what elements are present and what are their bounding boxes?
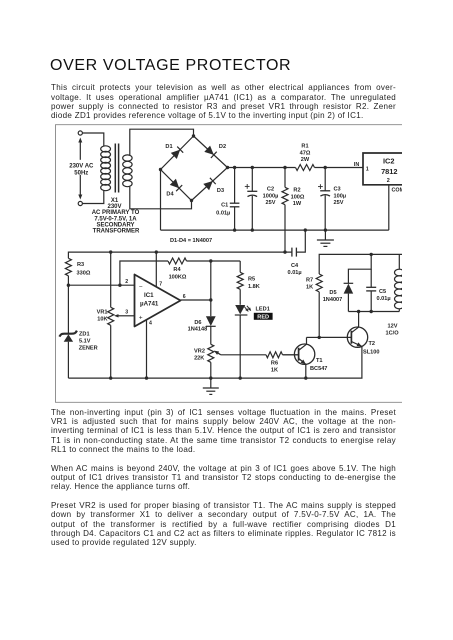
- svg-text:7: 7: [159, 282, 162, 288]
- svg-text:7812: 7812: [381, 167, 397, 176]
- svg-text:T2: T2: [369, 341, 376, 347]
- svg-text:X1: X1: [111, 198, 119, 204]
- zener diode ZD1: [59, 285, 97, 378]
- svg-text:2: 2: [387, 178, 390, 184]
- svg-text:1N4148: 1N4148: [188, 327, 208, 333]
- svg-text:C1: C1: [221, 203, 228, 209]
- wire secondary top to bridge: [130, 129, 194, 155]
- wire bridge left corner to ground rail: [160, 170, 162, 231]
- svg-text:VR1: VR1: [97, 310, 108, 316]
- resistor R7: [306, 274, 322, 337]
- svg-text:LED1: LED1: [256, 306, 270, 312]
- node pin 7 on sense rail: [155, 250, 158, 253]
- resistor R2: [282, 168, 305, 253]
- svg-text:100Ω: 100Ω: [291, 194, 305, 200]
- svg-text:ZENER: ZENER: [79, 345, 98, 351]
- svg-text:D1: D1: [165, 144, 172, 150]
- LED1: [235, 305, 270, 378]
- transformer X1 secondary winding: [123, 155, 132, 187]
- wire inverting input pin 2: [68, 284, 134, 286]
- bridge node left: [159, 168, 162, 171]
- svg-text:100µ: 100µ: [334, 193, 347, 199]
- bottom ground rail wire: [68, 346, 362, 378]
- regulator IC2 7812: [354, 153, 402, 185]
- svg-text:IC1: IC1: [144, 292, 154, 299]
- relay coil RL1: [395, 254, 405, 311]
- bridge rectifier diamond wires: [161, 136, 228, 201]
- node VR1 bottom: [109, 376, 112, 379]
- svg-text:0.01µ: 0.01µ: [216, 210, 230, 216]
- transistor T2 SL100: [319, 312, 379, 356]
- svg-text:+: +: [139, 314, 143, 321]
- node LED1 bottom on rail: [239, 376, 242, 379]
- svg-text:1K: 1K: [306, 285, 313, 291]
- wire terminal bottom to primary: [82, 191, 104, 204]
- resistor R6: [266, 352, 299, 374]
- node T2 collector junction: [357, 310, 360, 313]
- wire IC2 pin2 to ground rail: [388, 185, 390, 231]
- ground symbol near C3: [317, 230, 334, 246]
- node pin 6 junction: [209, 298, 212, 301]
- node pin 4 on bottom rail: [145, 376, 148, 379]
- svg-text:IC2: IC2: [383, 156, 395, 165]
- label RED tag: [254, 313, 273, 321]
- svg-text:D6: D6: [194, 320, 201, 326]
- svg-text:R1: R1: [301, 144, 308, 150]
- svg-text:D3: D3: [217, 188, 224, 194]
- resistor R1: [296, 144, 315, 171]
- svg-text:12V: 12V: [388, 323, 398, 329]
- wire secondary bottom to bridge: [130, 187, 192, 209]
- svg-text:T1: T1: [316, 358, 323, 364]
- svg-text:BC547: BC547: [310, 366, 327, 372]
- pin 6 label: [183, 294, 186, 300]
- diode D1: [165, 144, 183, 159]
- svg-text:RED: RED: [257, 315, 269, 321]
- svg-text:C2: C2: [267, 187, 274, 193]
- svg-text:TRANSFORMER: TRANSFORMER: [93, 229, 140, 235]
- svg-text:100KΩ: 100KΩ: [169, 275, 187, 281]
- svg-text:25V: 25V: [266, 200, 276, 206]
- node C3 top: [324, 166, 327, 169]
- node C4 right on ground rail: [304, 228, 307, 231]
- node C1 bottom: [233, 228, 236, 231]
- svg-text:2W: 2W: [301, 157, 310, 163]
- svg-text:4: 4: [149, 321, 152, 327]
- node relay box bottom C5: [370, 310, 373, 313]
- node VR2 bottom on rail: [209, 376, 212, 379]
- node output rail D6 drop: [209, 259, 212, 262]
- svg-text:C4: C4: [291, 263, 299, 269]
- svg-text:1: 1: [366, 166, 369, 172]
- node C1 top: [233, 166, 236, 169]
- node T1 T2 base junction: [318, 336, 321, 339]
- figure border frame: [56, 125, 403, 403]
- transformer X1 core: [115, 144, 118, 193]
- resistor R5: [237, 261, 260, 305]
- svg-text:AC PRIMARY TO: AC PRIMARY TO: [92, 210, 140, 216]
- bridge node bottom: [190, 199, 193, 202]
- wire pin 7 to sense rail: [155, 252, 157, 287]
- wire R4 branch from pin 2 node: [120, 261, 168, 285]
- label relay 12V 1C/O: [386, 323, 400, 336]
- mains input terminal top: [78, 131, 82, 135]
- mains voltage arrow: [78, 138, 82, 200]
- svg-text:1C/O: 1C/O: [386, 331, 400, 337]
- diode D4: [166, 179, 182, 198]
- pin 4 label: [149, 321, 152, 327]
- pin 7 label: [159, 282, 162, 288]
- bridge node right: [226, 166, 229, 169]
- VR2 wiper arrow: [214, 351, 266, 355]
- wire terminal top to primary: [82, 133, 104, 146]
- diode D2: [204, 144, 226, 158]
- node R2 top: [283, 166, 286, 169]
- svg-text:COM: COM: [392, 188, 405, 194]
- svg-text:VR2: VR2: [194, 349, 205, 355]
- svg-text:IN: IN: [354, 162, 359, 168]
- svg-text:22K: 22K: [194, 355, 204, 361]
- pin 3 label: [125, 310, 128, 316]
- svg-text:D1-D4 = 1N4007: D1-D4 = 1N4007: [170, 238, 212, 244]
- capacitor C1: [216, 168, 239, 231]
- node T1 emitter on bottom rail: [304, 376, 307, 379]
- preset VR1: [97, 252, 114, 378]
- node VR1 top: [109, 250, 112, 253]
- capacitor C3 electrolytic: [318, 168, 346, 231]
- svg-text:D4: D4: [166, 191, 174, 197]
- label 230V AC 50Hz: [65, 160, 97, 177]
- node R3 bottom: [67, 284, 70, 287]
- svg-text:2: 2: [125, 279, 128, 285]
- svg-text:1K: 1K: [271, 368, 278, 374]
- capacitor C2 electrolytic: [245, 168, 279, 231]
- wire pin 4 to ground rail bottom: [146, 320, 148, 378]
- svg-text:D5: D5: [329, 290, 336, 296]
- resistor R3: [65, 258, 90, 285]
- svg-text:1.8K: 1.8K: [248, 284, 260, 290]
- resistor R4: [168, 258, 240, 281]
- svg-text:330Ω: 330Ω: [77, 271, 91, 277]
- VR1 wiper arrow to pin 3: [114, 314, 135, 317]
- svg-text:25V: 25V: [334, 200, 344, 206]
- svg-text:R2: R2: [293, 188, 300, 194]
- preset VR2: [194, 344, 214, 378]
- node relay rail D5 drop: [370, 253, 373, 256]
- capacitor C4: [288, 230, 306, 276]
- svg-text:5.1V: 5.1V: [79, 339, 91, 345]
- wire output node down: [210, 261, 212, 316]
- svg-text:230V: 230V: [107, 204, 121, 210]
- svg-text:ZD1: ZD1: [79, 332, 90, 338]
- svg-text:D2: D2: [219, 144, 226, 150]
- svg-text:50Hz: 50Hz: [74, 170, 88, 176]
- svg-text:R5: R5: [248, 277, 255, 283]
- svg-text:R7: R7: [306, 278, 313, 284]
- bridge node top: [192, 134, 195, 137]
- svg-text:R6: R6: [271, 360, 278, 366]
- svg-text:0.01µ: 0.01µ: [377, 296, 391, 302]
- wire op-amp output pin 6: [181, 299, 211, 301]
- pin 2 label: [125, 279, 128, 285]
- capacitor C5: [366, 269, 390, 311]
- label X1 230V AC PRIMARY TO 7.5V-0-7.5V, 1A SECONDARY TRANSFORMER: [92, 198, 140, 235]
- wire sense rail R3 to C4: [68, 252, 292, 258]
- node C2 top: [251, 166, 254, 169]
- transistor T1 BC547: [283, 337, 328, 378]
- wire positive rail left segment: [228, 167, 296, 169]
- node R4 drop on pin 2 wire: [118, 284, 121, 287]
- diode D3: [203, 178, 224, 194]
- wire relay box bottom: [348, 311, 399, 313]
- svg-text:SL100: SL100: [363, 350, 379, 356]
- svg-text:10K: 10K: [97, 317, 107, 323]
- mains input terminal bottom: [78, 201, 82, 205]
- svg-text:47Ω: 47Ω: [300, 150, 311, 156]
- svg-text:7.5V-0-7.5V, 1A: 7.5V-0-7.5V, 1A: [94, 216, 137, 222]
- svg-text:R4: R4: [173, 267, 181, 273]
- node R2 bottom on sense rail: [283, 250, 286, 253]
- wire relay rail: [319, 254, 402, 274]
- wire relay box top: [348, 254, 371, 283]
- svg-text:0.01µ: 0.01µ: [288, 270, 302, 276]
- svg-text:R3: R3: [77, 262, 84, 268]
- ground symbol bottom: [203, 378, 219, 394]
- node ground symbol rail: [324, 228, 327, 231]
- svg-text:SECONDARY: SECONDARY: [96, 222, 134, 228]
- svg-text:3: 3: [125, 310, 128, 316]
- svg-text:1000µ: 1000µ: [263, 193, 279, 199]
- diode D5: [323, 283, 354, 311]
- label D1-D4 = 1N4007: [170, 238, 212, 244]
- svg-text:1N4007: 1N4007: [323, 297, 343, 303]
- ground rail wire: [161, 229, 389, 231]
- wire positive rail right segment: [315, 167, 364, 169]
- diode D6: [188, 316, 216, 344]
- transformer X1 primary winding: [101, 146, 111, 191]
- svg-text:µA741: µA741: [140, 300, 159, 307]
- svg-text:−: −: [139, 283, 143, 290]
- svg-text:1W: 1W: [293, 201, 302, 207]
- op-amp IC1 uA741 triangle: [135, 275, 181, 327]
- svg-text:6: 6: [183, 294, 186, 300]
- svg-text:C5: C5: [379, 289, 386, 295]
- svg-text:C3: C3: [334, 187, 341, 193]
- node C2 bottom: [251, 228, 254, 231]
- svg-text:230V AC: 230V AC: [69, 164, 94, 170]
- label COM pin 2: [392, 188, 405, 194]
